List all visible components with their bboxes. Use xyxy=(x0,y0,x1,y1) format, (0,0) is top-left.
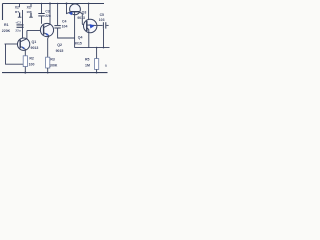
label C2 xyxy=(15,21,21,33)
label Q4 9015 xyxy=(74,36,82,46)
capacitor C5 xyxy=(96,22,108,28)
svg-text:C3: C3 xyxy=(45,10,49,14)
svg-text:1M: 1M xyxy=(85,64,90,68)
svg-text:R1: R1 xyxy=(4,23,9,27)
resistor R5 xyxy=(95,59,99,73)
svg-text:9015: 9015 xyxy=(74,42,82,46)
junction dots xyxy=(24,3,104,74)
svg-text:Q4: Q4 xyxy=(78,36,83,40)
label R5 1M xyxy=(85,58,90,68)
label R2 100 xyxy=(29,56,35,66)
svg-text:R3: R3 xyxy=(50,57,54,61)
wire bottom rail xyxy=(2,72,108,74)
svg-text:C5: C5 xyxy=(100,13,104,17)
label Q3 9013 xyxy=(77,10,86,19)
label C3 22u xyxy=(45,10,51,19)
wire Q1 base xyxy=(5,43,18,45)
svg-text:100: 100 xyxy=(29,62,35,66)
svg-text:R2: R2 xyxy=(29,56,34,60)
svg-text:+C2: +C2 xyxy=(15,21,21,25)
wire Q3 base / Q4 emitter to R5 xyxy=(75,47,110,49)
svg-text:Q2: Q2 xyxy=(57,43,62,47)
svg-text:22u: 22u xyxy=(15,29,20,33)
label X1 xyxy=(26,6,31,15)
label X2 xyxy=(15,6,19,15)
svg-text:R5: R5 xyxy=(85,58,90,62)
label C4 104 xyxy=(62,19,68,28)
label C5 103 xyxy=(99,13,105,22)
svg-text:Q3: Q3 xyxy=(82,10,87,14)
capacitor C3 xyxy=(38,4,44,24)
capacitor C2 xyxy=(17,10,24,38)
svg-text:Q1: Q1 xyxy=(32,40,37,44)
capacitor C4 xyxy=(54,4,74,39)
resistor R1 label xyxy=(2,23,11,33)
jack X1 xyxy=(29,4,33,18)
wire Q4 collector xyxy=(88,4,90,21)
svg-text:BT: BT xyxy=(15,10,19,14)
wire top rail xyxy=(3,3,105,5)
resistor R3 xyxy=(46,57,50,72)
svg-text:100K: 100K xyxy=(49,63,58,67)
svg-text:9015: 9015 xyxy=(56,49,64,53)
label Q1 9013 xyxy=(31,40,39,50)
svg-text:C4: C4 xyxy=(62,19,67,23)
label R3 100K xyxy=(49,57,58,67)
transistor Q1 xyxy=(17,31,29,56)
transistor Q3 xyxy=(67,4,85,48)
svg-text:103: 103 xyxy=(99,18,105,22)
svg-text:9013: 9013 xyxy=(31,46,39,50)
svg-text:16T: 16T xyxy=(26,10,31,14)
svg-text:X2: X2 xyxy=(15,6,19,10)
svg-text:X1: X1 xyxy=(27,6,31,10)
wire base-to-bottom L xyxy=(6,44,24,64)
label Q2 9015 xyxy=(56,43,64,53)
svg-text:22u: 22u xyxy=(45,14,51,18)
wire left rail xyxy=(2,4,4,21)
resistor R2 xyxy=(23,56,27,73)
svg-text:104: 104 xyxy=(62,25,68,29)
svg-text:9: 9 xyxy=(105,64,107,68)
transistor Q2 xyxy=(40,4,53,58)
svg-text:220K: 220K xyxy=(2,29,11,33)
svg-text:9013: 9013 xyxy=(77,16,85,20)
transistor Q4 xyxy=(84,19,97,47)
jack X2 xyxy=(18,4,22,18)
wire Q2 base xyxy=(27,30,41,32)
